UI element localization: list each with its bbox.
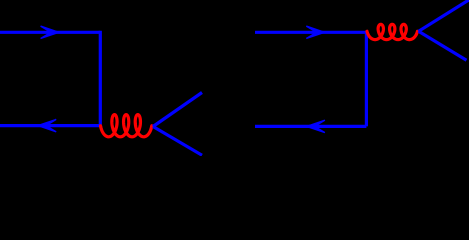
wire: vertical quark propagator [99,31,102,126]
arrow on bottom line (leftward) [307,120,325,132]
wire: outgoing quark bottom line [0,124,100,127]
arrow on top line (rightward) [41,26,59,38]
wire: lower-right quark line of fork [153,127,202,156]
wire: upper-right quark line of fork [153,93,202,127]
wire: outgoing quark bottom line [255,125,366,128]
Feynman diagrams: quark lines (blue) exchanging gluons (red) [0,0,469,156]
wire: incoming quark top line [0,31,100,34]
wire: incoming quark top line [255,31,366,34]
arrow on top line (rightward) [306,26,324,38]
wire: vertical quark propagator [365,31,368,127]
gluon propagator (red coil) [101,115,152,137]
wire: upper-right quark line of fork [419,0,469,31]
wire: lower-right quark line of fork [419,31,467,60]
gluon propagator (red coil) [367,24,417,39]
arrow on bottom line (leftward) [38,119,56,131]
